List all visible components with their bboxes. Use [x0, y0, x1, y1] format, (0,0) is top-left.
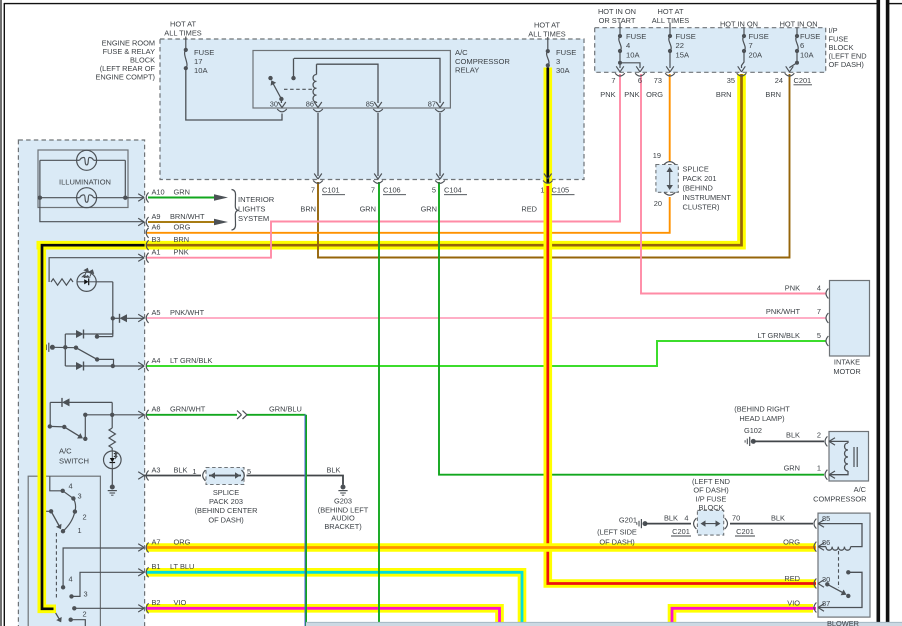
- svg-text:SYSTEM: SYSTEM: [238, 214, 269, 223]
- svg-text:PNK/WHT: PNK/WHT: [170, 308, 205, 317]
- svg-text:3: 3: [83, 590, 87, 599]
- svg-text:A/C: A/C: [59, 447, 72, 456]
- svg-text:GRN: GRN: [174, 187, 190, 196]
- svg-text:PNK/WHT: PNK/WHT: [766, 307, 801, 316]
- svg-text:30: 30: [270, 100, 278, 109]
- svg-text:BLOCK: BLOCK: [698, 503, 723, 512]
- svg-text:B3: B3: [152, 235, 161, 244]
- svg-text:INTAKE: INTAKE: [834, 358, 860, 367]
- svg-text:SPLICE: SPLICE: [213, 488, 239, 497]
- svg-text:I/P FUSE: I/P FUSE: [696, 494, 727, 503]
- svg-text:PACK 201: PACK 201: [683, 174, 717, 183]
- svg-text:4: 4: [817, 284, 821, 293]
- svg-text:OF DASH): OF DASH): [208, 515, 243, 524]
- svg-text:LT BLU: LT BLU: [170, 562, 194, 571]
- svg-text:30: 30: [822, 575, 830, 584]
- svg-text:5: 5: [247, 467, 251, 476]
- svg-text:B1: B1: [152, 562, 161, 571]
- svg-text:HOT AT: HOT AT: [170, 20, 196, 29]
- svg-text:HOT IN ON: HOT IN ON: [780, 20, 818, 29]
- svg-text:GRN/BLU: GRN/BLU: [269, 405, 302, 414]
- svg-text:G203: G203: [334, 497, 352, 506]
- svg-text:OF DASH): OF DASH): [829, 60, 864, 69]
- svg-text:GRN: GRN: [360, 205, 376, 214]
- svg-text:PNK: PNK: [785, 284, 800, 293]
- svg-text:FUSE: FUSE: [676, 32, 696, 41]
- svg-text:30A: 30A: [556, 66, 570, 75]
- svg-text:20A: 20A: [749, 51, 763, 60]
- svg-text:PACK 203: PACK 203: [209, 497, 243, 506]
- svg-text:7: 7: [817, 307, 821, 316]
- svg-text:ALL TIMES: ALL TIMES: [528, 30, 565, 39]
- svg-text:BRN: BRN: [765, 90, 781, 99]
- svg-text:PNK: PNK: [174, 248, 189, 257]
- svg-text:A4: A4: [152, 356, 161, 365]
- svg-text:LT GRN/BLK: LT GRN/BLK: [758, 331, 801, 340]
- svg-text:2: 2: [82, 513, 86, 522]
- svg-text:VIO: VIO: [174, 598, 187, 607]
- svg-text:85: 85: [822, 514, 830, 523]
- svg-text:A/C: A/C: [455, 48, 468, 57]
- svg-text:GRN/WHT: GRN/WHT: [170, 405, 206, 414]
- svg-text:VIO: VIO: [787, 599, 800, 608]
- svg-text:ALL TIMES: ALL TIMES: [164, 29, 201, 38]
- svg-text:C106: C106: [383, 186, 401, 195]
- svg-text:RED: RED: [784, 574, 800, 583]
- svg-text:HOT AT: HOT AT: [534, 21, 560, 30]
- svg-text:GRN: GRN: [421, 205, 437, 214]
- svg-text:OF DASH): OF DASH): [599, 538, 634, 547]
- svg-text:INTERIOR: INTERIOR: [238, 195, 275, 204]
- svg-text:C105: C105: [552, 186, 570, 195]
- svg-text:HEAD LAMP): HEAD LAMP): [739, 414, 784, 423]
- svg-text:ORG: ORG: [646, 90, 663, 99]
- svg-text:35: 35: [727, 76, 735, 85]
- svg-text:6: 6: [800, 41, 804, 50]
- svg-text:BRN: BRN: [716, 90, 732, 99]
- svg-text:1: 1: [540, 186, 544, 195]
- svg-text:RELAY: RELAY: [455, 66, 479, 75]
- svg-text:A7: A7: [152, 537, 161, 546]
- svg-text:(BEHIND: (BEHIND: [683, 183, 713, 192]
- svg-text:G102: G102: [744, 426, 762, 435]
- svg-text:BRN/WHT: BRN/WHT: [170, 212, 205, 221]
- svg-text:GRN: GRN: [784, 464, 800, 473]
- svg-text:RED: RED: [521, 205, 537, 214]
- svg-text:7: 7: [311, 186, 315, 195]
- svg-text:C101: C101: [322, 186, 340, 195]
- svg-text:1: 1: [192, 467, 196, 476]
- svg-text:4: 4: [626, 41, 630, 50]
- svg-text:C201: C201: [736, 527, 754, 536]
- svg-text:C201: C201: [672, 527, 690, 536]
- svg-text:FUSE: FUSE: [626, 32, 646, 41]
- svg-text:2: 2: [817, 431, 821, 440]
- svg-text:ALL TIMES: ALL TIMES: [652, 16, 689, 25]
- svg-text:10A: 10A: [194, 66, 208, 75]
- svg-text:(LEFT END: (LEFT END: [692, 477, 730, 486]
- svg-text:ORG: ORG: [783, 538, 800, 547]
- svg-text:G201: G201: [619, 516, 637, 525]
- svg-text:HOT IN ON: HOT IN ON: [598, 7, 636, 16]
- svg-text:2: 2: [82, 610, 86, 619]
- svg-text:4: 4: [684, 514, 688, 523]
- svg-text:OF DASH): OF DASH): [693, 486, 728, 495]
- svg-text:INSTRUMENT: INSTRUMENT: [683, 193, 732, 202]
- svg-text:BRACKET): BRACKET): [324, 522, 361, 531]
- svg-text:(BEHIND RIGHT: (BEHIND RIGHT: [734, 405, 790, 414]
- svg-text:1: 1: [817, 464, 821, 473]
- svg-text:85: 85: [366, 100, 374, 109]
- svg-text:C201: C201: [794, 76, 812, 85]
- svg-text:17: 17: [194, 57, 202, 66]
- svg-text:OR START: OR START: [599, 16, 636, 25]
- svg-text:5: 5: [432, 186, 436, 195]
- svg-text:(LEFT SIDE: (LEFT SIDE: [597, 528, 637, 537]
- svg-text:BLK: BLK: [174, 465, 188, 474]
- svg-text:A9: A9: [152, 212, 161, 221]
- svg-text:HOT AT: HOT AT: [657, 7, 683, 16]
- svg-text:7: 7: [749, 41, 753, 50]
- svg-text:BLK: BLK: [664, 514, 678, 523]
- svg-text:BLK: BLK: [771, 514, 785, 523]
- svg-text:86: 86: [306, 100, 314, 109]
- svg-text:COMPRESSOR: COMPRESSOR: [813, 495, 866, 504]
- svg-text:BLK: BLK: [327, 466, 341, 475]
- svg-text:ENGINE COMPT): ENGINE COMPT): [95, 72, 155, 81]
- svg-text:A3: A3: [152, 465, 161, 474]
- svg-text:PNK: PNK: [600, 90, 615, 99]
- svg-text:4: 4: [68, 482, 72, 491]
- svg-text:7: 7: [371, 186, 375, 195]
- svg-text:FUSE: FUSE: [194, 48, 214, 57]
- svg-text:FUSE: FUSE: [749, 32, 769, 41]
- svg-text:3: 3: [77, 492, 81, 501]
- svg-text:A/C: A/C: [854, 485, 867, 494]
- svg-text:A10: A10: [152, 187, 165, 196]
- svg-text:7: 7: [611, 76, 615, 85]
- svg-text:LIGHTS: LIGHTS: [238, 205, 265, 214]
- svg-text:24: 24: [775, 76, 783, 85]
- svg-text:BLK: BLK: [786, 431, 800, 440]
- svg-text:A5: A5: [152, 308, 161, 317]
- svg-text:70: 70: [732, 514, 740, 523]
- svg-text:19: 19: [653, 151, 661, 160]
- svg-text:PNK: PNK: [624, 90, 639, 99]
- svg-text:(BEHIND CENTER: (BEHIND CENTER: [195, 506, 258, 515]
- svg-text:ORG: ORG: [174, 537, 191, 546]
- svg-text:BRN: BRN: [174, 235, 190, 244]
- svg-text:86: 86: [822, 538, 830, 547]
- svg-text:3: 3: [556, 57, 560, 66]
- svg-text:FUSE: FUSE: [800, 32, 820, 41]
- svg-text:LT GRN/BLK: LT GRN/BLK: [170, 356, 213, 365]
- svg-text:87: 87: [822, 599, 830, 608]
- svg-text:A6: A6: [152, 223, 161, 232]
- svg-text:6: 6: [638, 76, 642, 85]
- svg-text:BLOWER: BLOWER: [827, 619, 859, 626]
- svg-text:MOTOR: MOTOR: [833, 367, 860, 376]
- svg-text:4: 4: [68, 575, 72, 584]
- svg-text:20: 20: [654, 199, 662, 208]
- svg-text:ORG: ORG: [174, 223, 191, 232]
- svg-text:C104: C104: [444, 186, 462, 195]
- svg-text:SPLICE: SPLICE: [683, 164, 709, 173]
- svg-text:SWITCH: SWITCH: [59, 457, 89, 466]
- svg-text:73: 73: [654, 76, 662, 85]
- svg-text:BRN: BRN: [300, 205, 316, 214]
- svg-text:A1: A1: [152, 248, 161, 257]
- svg-text:COMPRESSOR: COMPRESSOR: [455, 57, 510, 66]
- svg-text:HOT IN ON: HOT IN ON: [720, 20, 758, 29]
- svg-text:87: 87: [428, 100, 436, 109]
- svg-text:15A: 15A: [676, 51, 690, 60]
- svg-text:ILLUMINATION: ILLUMINATION: [59, 178, 111, 187]
- svg-text:10A: 10A: [800, 51, 814, 60]
- svg-text:5: 5: [817, 331, 821, 340]
- svg-text:22: 22: [676, 41, 684, 50]
- svg-text:B2: B2: [152, 598, 161, 607]
- svg-text:A8: A8: [152, 405, 161, 414]
- svg-text:1: 1: [77, 526, 81, 535]
- svg-text:FUSE: FUSE: [556, 48, 576, 57]
- svg-text:10A: 10A: [626, 51, 640, 60]
- svg-text:CLUSTER): CLUSTER): [683, 202, 720, 211]
